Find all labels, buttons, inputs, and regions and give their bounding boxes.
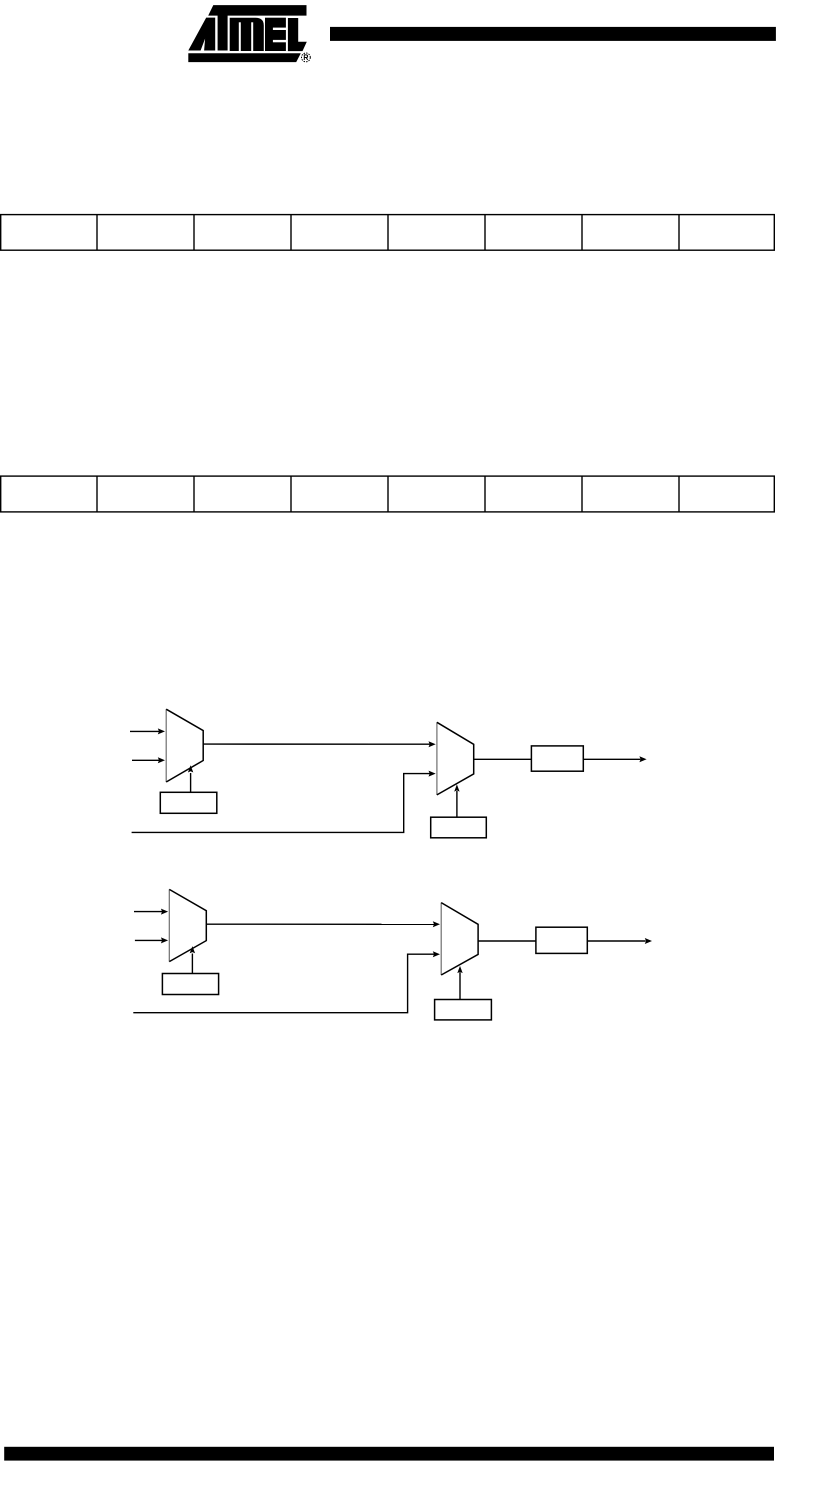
wire: select register 2b to U4 — [457, 966, 462, 1000]
register table 2 — [1, 476, 775, 512]
mux U1 left edge — [165, 709, 167, 782]
footer rule bar — [4, 1447, 774, 1461]
mux U1 outline — [166, 709, 203, 782]
wire: select register 1b to U2 — [454, 784, 459, 817]
mux U4 left edge — [440, 903, 442, 975]
wire: select register 2a to U3 — [190, 946, 195, 973]
mux U2 outline — [437, 722, 474, 795]
wire: lower net to U4 input 2 — [133, 951, 440, 1013]
mux U3 outline — [169, 889, 206, 961]
output register box 1c — [531, 746, 583, 771]
mux U2 left edge — [436, 722, 438, 795]
mux U4 outline — [441, 903, 478, 975]
wire: output arrow 2 — [587, 938, 652, 944]
Atmel logo — [188, 5, 310, 62]
header rule bar — [330, 27, 776, 41]
register table 1 — [1, 215, 775, 251]
wire: output arrow 1 — [583, 756, 646, 762]
output register box 2c — [536, 927, 587, 953]
select register box 2b — [435, 1000, 492, 1020]
select register box 1a — [160, 792, 217, 813]
wire: input 2 to U1 — [132, 757, 165, 763]
wire: input 2 to U3 — [135, 937, 168, 943]
select register box 2a — [162, 974, 218, 995]
wire: input 1 to U1 — [130, 728, 165, 734]
wire: U3 output to U4 input 1 — [206, 921, 440, 927]
wire: input 1 to U3 — [134, 909, 168, 915]
wire: U1 output to U2 input 1 — [203, 741, 436, 747]
wire: select register 1a to U1 — [188, 765, 193, 792]
wire: U4 output to register box 2c — [478, 940, 536, 942]
wire: lower net to U2 input 2 — [132, 771, 436, 833]
select register box 1b — [431, 817, 487, 838]
wire: U2 output to register box 1c — [474, 758, 532, 760]
mux U3 left edge — [168, 889, 170, 961]
